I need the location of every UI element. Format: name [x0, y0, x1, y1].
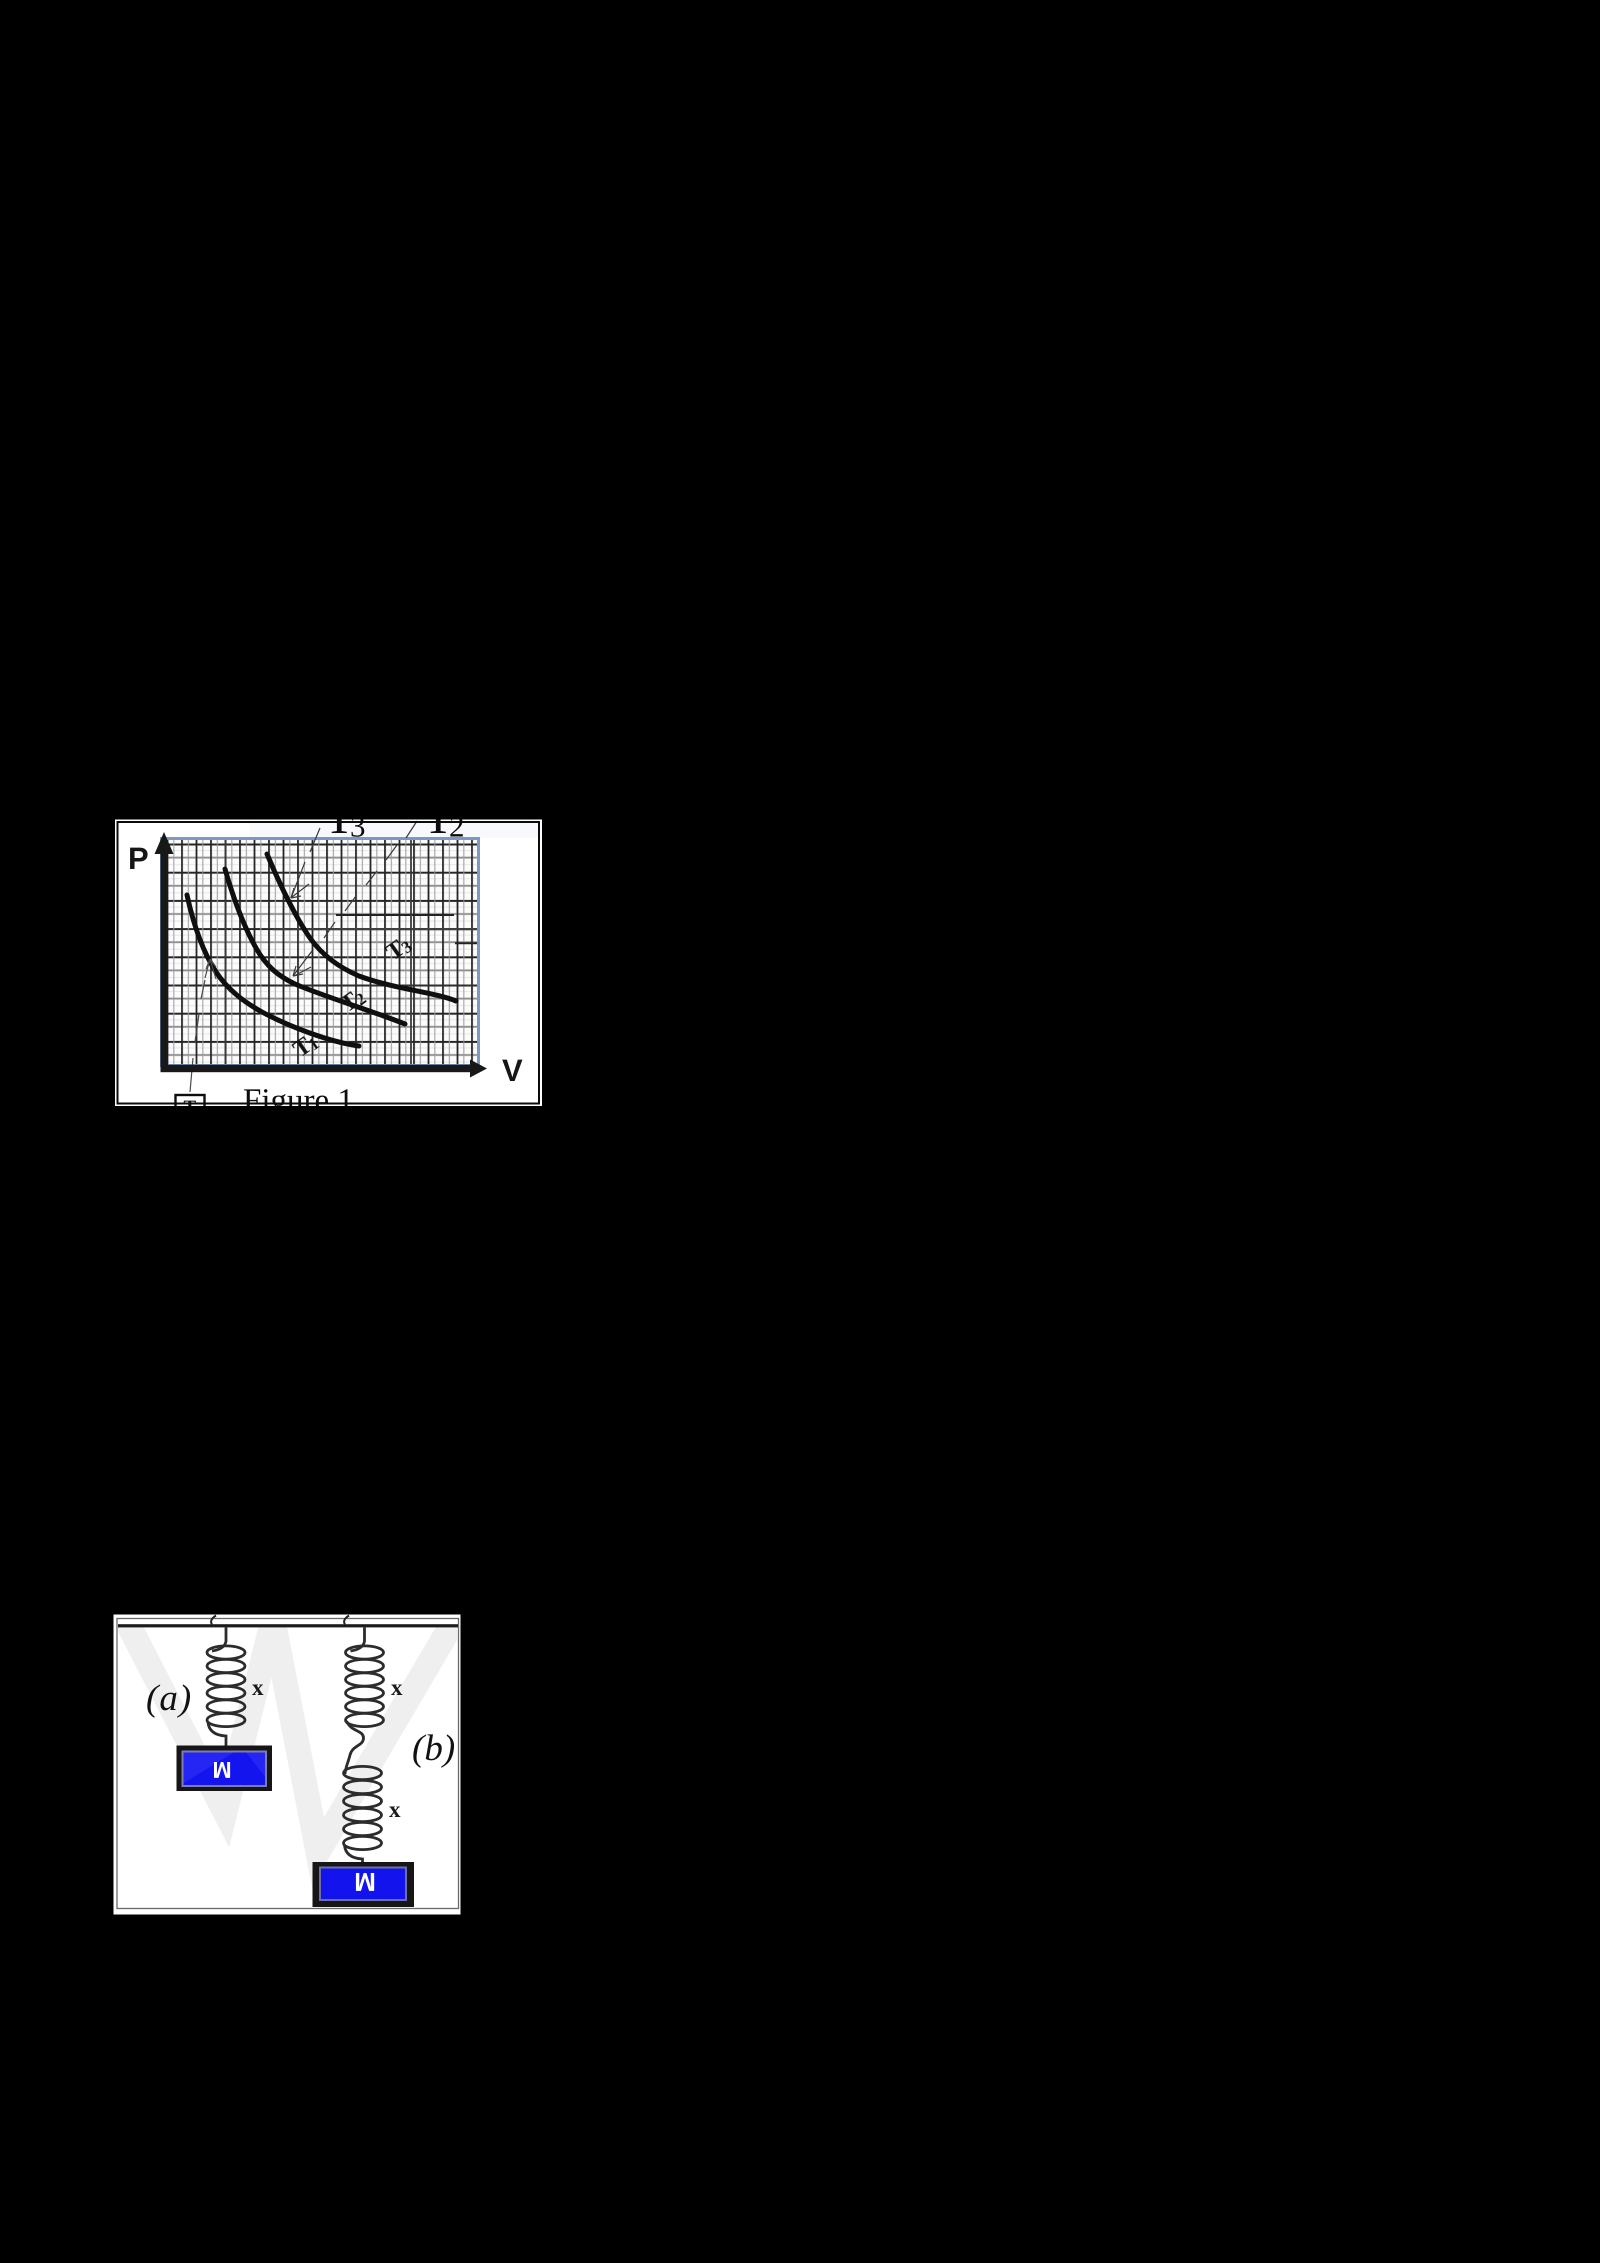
- boxed label T1 at bottom (cut): [176, 1095, 205, 1118]
- mask below panel: [100, 1106, 560, 1126]
- mass M of spring b: [313, 1862, 415, 1907]
- blue grid border: [162, 839, 479, 1066]
- spring b upper: [345, 1628, 384, 1775]
- figure 2 thin frame: [117, 1619, 459, 1909]
- figure 1 black frame: [118, 822, 540, 1104]
- spring b lower: [344, 1766, 382, 1862]
- curve label T3: [382, 931, 416, 966]
- svg-text:x: x: [252, 1675, 264, 1700]
- svg-text:V: V: [502, 1053, 523, 1088]
- mass M of spring a: [177, 1746, 273, 1792]
- ceiling hook mark left: [211, 1616, 216, 1625]
- ceiling hook mark right: [344, 1616, 349, 1625]
- leader line to label T1 (bottom, broken): [190, 959, 216, 1092]
- isotherm curve T2: [225, 869, 405, 1024]
- leader line from label T3: [291, 828, 320, 898]
- extra dark scan line y915: [336, 914, 454, 916]
- svg-text:P: P: [128, 841, 149, 876]
- extra dark scan line y985: [274, 985, 477, 987]
- P axis (vertical): [161, 850, 169, 1072]
- big label T3 (cut at top): [324, 788, 366, 844]
- extra dark vertical line x225: [225, 840, 227, 1064]
- svg-text:M: M: [212, 1757, 231, 1783]
- svg-text:x: x: [389, 1797, 401, 1822]
- extra dark scan line y943: [455, 942, 477, 944]
- svg-text:(b): (b): [412, 1728, 455, 1769]
- svg-text:(a): (a): [146, 1678, 192, 1719]
- V axis (horizontal): [161, 1065, 471, 1072]
- curve label T1: [289, 1028, 323, 1063]
- extra dark vertical line x411: [410, 840, 412, 1064]
- ceiling line: [118, 1624, 458, 1627]
- big label T2 (cut at top): [423, 788, 465, 844]
- svg-text:M: M: [354, 1867, 376, 1897]
- grid paper: [164, 840, 478, 1065]
- svg-text:x: x: [391, 1675, 403, 1700]
- spring a: [207, 1628, 245, 1748]
- figure 2 white panel: [114, 1615, 461, 1915]
- extra dark scan line y929: [273, 928, 477, 930]
- figure 1 white panel: [115, 820, 542, 1107]
- isotherm curve T3: [267, 854, 456, 1001]
- leader line from label T2 (broken): [293, 821, 417, 976]
- pale blue strip at top of panel: [250, 822, 539, 838]
- curve label T2: [336, 983, 370, 1018]
- isotherm curve T1: [187, 895, 359, 1046]
- mask above panel (cuts big labels): [100, 790, 560, 820]
